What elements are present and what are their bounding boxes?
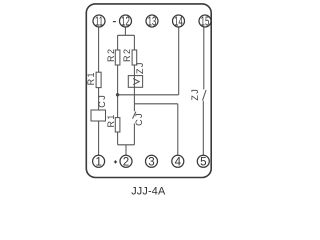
resistor R1 (left) [96, 72, 101, 87]
wire: bus to R2 right [133, 35, 135, 50]
coil ZJ box [128, 76, 142, 88]
terminal 12 [120, 15, 132, 29]
wire: terminal 15 stub [203, 27, 205, 89]
terminal 4 [172, 155, 184, 168]
svg-text:1: 1 [95, 155, 101, 168]
svg-text:CJ: CJ [97, 94, 107, 108]
wire: down to terminal 4 [177, 104, 179, 156]
wire: R2 left to R1 middle [117, 65, 119, 118]
contact CJ top lead [133, 104, 135, 112]
wire: contact ZJ to terminal 5 [202, 101, 204, 156]
svg-text:14: 14 [174, 16, 183, 29]
coil ZJ chevron [133, 79, 139, 85]
svg-text:JJJ-4A: JJJ-4A [131, 186, 166, 198]
svg-text:R2: R2 [122, 48, 132, 62]
wire: R1 to coil CJ [98, 88, 100, 110]
svg-text:ZJ: ZJ [190, 88, 200, 101]
wire: bus to R2 left [117, 35, 119, 50]
svg-text:3: 3 [148, 155, 154, 168]
resistor R2 (left) [115, 50, 120, 65]
terminal 15 [199, 15, 211, 29]
terminal 11 [93, 15, 105, 29]
wire: bus tap to terminal 2 [125, 145, 127, 156]
wire: R2 right through coil ZJ to contact line [133, 65, 135, 104]
wire: R1 middle to bottom bus [117, 132, 119, 145]
wire: node line to terminal 14 [118, 94, 179, 96]
terminal 5 [197, 155, 209, 168]
wire: terminal 14 stub [178, 27, 180, 95]
svg-text:R1: R1 [106, 113, 116, 127]
svg-text:2: 2 [123, 155, 129, 168]
svg-text:13: 13 [148, 16, 157, 29]
resistor R2 (right) [132, 50, 137, 65]
contact CJ bottom lead [133, 124, 135, 145]
svg-text:R1: R1 [86, 71, 96, 85]
svg-text:12: 12 [121, 16, 130, 29]
wire: bottom bus [118, 144, 135, 146]
wire: coil CJ to terminal 1 [98, 121, 100, 156]
svg-text:4: 4 [175, 155, 182, 168]
terminal 3 [146, 155, 158, 168]
svg-text:CJ: CJ [134, 112, 144, 126]
coil CJ box [91, 110, 106, 121]
svg-text:R2: R2 [106, 48, 116, 62]
terminal 1 [93, 155, 105, 168]
svg-text:15: 15 [201, 16, 210, 29]
node junction dot [116, 93, 119, 96]
svg-text:11: 11 [95, 16, 103, 29]
polarity minus sign [113, 21, 116, 23]
polarity plus sign [114, 160, 117, 163]
svg-text:ZJ: ZJ [135, 61, 145, 74]
terminal 13 [146, 15, 158, 29]
wire: terminal 12 down [124, 27, 126, 35]
wire: contact top line to terminal 4 [134, 103, 177, 105]
terminal 14 [173, 15, 185, 29]
wire: split bus top [118, 34, 135, 36]
resistor R1 (middle) [115, 118, 120, 132]
wire: terminal 11 to R1 [98, 27, 100, 72]
enclosure outline [86, 4, 211, 178]
contact ZJ blade [203, 90, 207, 100]
contact CJ blade [133, 112, 136, 119]
svg-text:5: 5 [200, 155, 206, 168]
terminal 2 [120, 155, 132, 168]
